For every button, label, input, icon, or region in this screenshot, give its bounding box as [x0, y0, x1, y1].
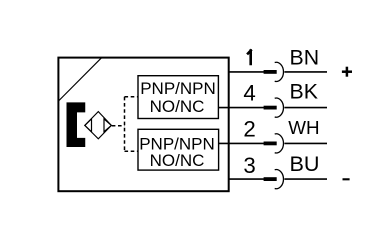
- pin3 plug bar: [264, 177, 277, 181]
- sensing face bracket: [67, 102, 86, 147]
- dashed bus vertical wire: [124, 97, 126, 151]
- wire pin2 left segment: [219, 142, 265, 144]
- pin4 plug bar: [264, 106, 277, 110]
- svg-text:NO/NC: NO/NC: [150, 97, 205, 116]
- svg-text:BU: BU: [290, 151, 320, 176]
- right triangle: [104, 119, 111, 132]
- svg-text:NO/NC: NO/NC: [150, 151, 205, 170]
- svg-text:2: 2: [243, 116, 255, 141]
- svg-text:4: 4: [243, 80, 255, 105]
- output block U2: [138, 129, 219, 170]
- pin3 socket arc: [275, 170, 284, 189]
- wire BK right segment: [284, 107, 327, 109]
- svg-text:3: 3: [243, 153, 255, 178]
- left triangle: [85, 119, 92, 132]
- pin4 socket arc: [275, 98, 284, 117]
- wire pin4 left segment: [219, 107, 265, 109]
- svg-text:BK: BK: [290, 80, 318, 104]
- wire BN right segment: [284, 71, 327, 73]
- pin2 plug bar: [264, 142, 277, 146]
- wire pin1 left segment: [230, 71, 265, 73]
- sensor body outline: [58, 58, 228, 192]
- svg-text:PNP/NPN: PNP/NPN: [140, 79, 216, 98]
- pin1 plug bar: [264, 70, 277, 74]
- plus sign: [342, 67, 352, 77]
- dashed stub to block U1: [125, 96, 138, 98]
- proximity sensor diamond: [85, 112, 112, 139]
- wire WH right segment: [284, 142, 327, 144]
- dashed wire from sensor symbol: [112, 125, 125, 127]
- pin1 socket arc: [275, 62, 284, 81]
- wire BU right segment: [284, 178, 327, 180]
- svg-text:WH: WH: [288, 117, 319, 138]
- svg-text:BN: BN: [290, 45, 320, 69]
- dashed stub to block U2: [125, 150, 138, 152]
- pin number 1: [247, 49, 252, 65]
- minus sign: [343, 178, 350, 180]
- wire pin3 left segment: [230, 178, 265, 180]
- output block U1: [138, 76, 218, 119]
- pin2 socket arc: [275, 134, 284, 153]
- corner diagonal: [59, 58, 102, 101]
